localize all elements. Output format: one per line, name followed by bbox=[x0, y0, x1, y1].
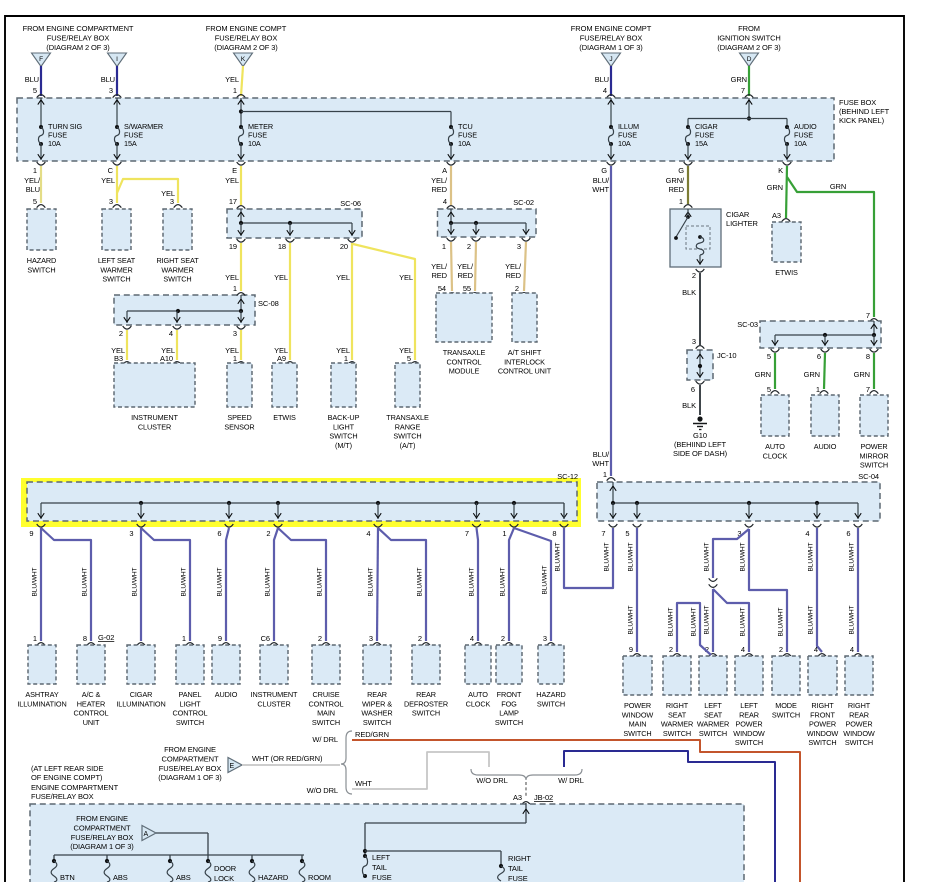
svg-text:SWITCH: SWITCH bbox=[860, 461, 888, 470]
svg-text:9: 9 bbox=[218, 634, 222, 643]
svg-text:BLU/WHT: BLU/WHT bbox=[417, 567, 424, 596]
wire YEL SC-06 pin 18 to ETWIS pin A9 bbox=[274, 243, 290, 360]
wire YEL fuse box pin E to SC-06 pin 17 bbox=[225, 166, 245, 209]
svg-text:1: 1 bbox=[233, 86, 237, 95]
connector SC-06 bbox=[227, 199, 362, 251]
svg-text:RIGHT SEAT: RIGHT SEAT bbox=[156, 256, 199, 265]
wire BLU/WHT SC-04 pin 6 to right rear power window switch bbox=[849, 528, 863, 657]
svg-text:4: 4 bbox=[805, 529, 809, 538]
svg-text:(DIAGRAM 2 OF 3): (DIAGRAM 2 OF 3) bbox=[717, 43, 781, 52]
auto clock (bottom) bbox=[465, 645, 491, 684]
svg-text:BLK: BLK bbox=[682, 401, 696, 410]
svg-text:YEL/: YEL/ bbox=[24, 176, 41, 185]
svg-text:BLU/WHT: BLU/WHT bbox=[317, 567, 324, 596]
hazard switch (bottom) bbox=[538, 645, 564, 684]
svg-text:7: 7 bbox=[866, 385, 870, 394]
svg-text:SWITCH: SWITCH bbox=[699, 729, 727, 738]
svg-text:E: E bbox=[230, 763, 235, 770]
svg-text:FUSE/RELAY BOX: FUSE/RELAY BOX bbox=[215, 34, 278, 43]
svg-text:8: 8 bbox=[552, 529, 556, 538]
svg-text:WINDOW: WINDOW bbox=[733, 729, 765, 738]
svg-text:(DIAGRAM 2 OF 3): (DIAGRAM 2 OF 3) bbox=[46, 43, 110, 52]
svg-text:CRUISE: CRUISE bbox=[313, 690, 340, 699]
svg-text:1: 1 bbox=[33, 634, 37, 643]
svg-text:SWITCH: SWITCH bbox=[495, 718, 523, 727]
svg-text:1: 1 bbox=[679, 197, 683, 206]
left seat warmer switch bbox=[102, 209, 131, 250]
svg-text:A3: A3 bbox=[772, 211, 781, 220]
component pin arcs row (instrument cluster etc.) bbox=[114, 354, 419, 365]
svg-text:BLU/WHT: BLU/WHT bbox=[628, 605, 635, 634]
svg-text:LOCK: LOCK bbox=[214, 874, 234, 882]
svg-text:ETWIS: ETWIS bbox=[775, 268, 798, 277]
svg-text:SWITCH: SWITCH bbox=[735, 738, 763, 747]
fuse LEFT TAIL bbox=[362, 853, 391, 882]
wire BLU/WHT SC-04 pin 4 to right front power window switch bbox=[808, 528, 827, 657]
svg-text:LAMP: LAMP bbox=[499, 709, 519, 718]
svg-text:LIGHT: LIGHT bbox=[333, 422, 355, 431]
svg-text:HAZARD: HAZARD bbox=[536, 690, 565, 699]
svg-text:(DIAGRAM 1 OF 3): (DIAGRAM 1 OF 3) bbox=[70, 842, 134, 851]
svg-text:BLU/WHT: BLU/WHT bbox=[469, 567, 476, 596]
svg-text:TRANSAXLE: TRANSAXLE bbox=[386, 413, 429, 422]
svg-text:DEFROSTER: DEFROSTER bbox=[404, 699, 448, 708]
svg-text:BLU/WHT: BLU/WHT bbox=[181, 567, 188, 596]
svg-text:1: 1 bbox=[816, 385, 820, 394]
svg-text:1: 1 bbox=[442, 242, 446, 251]
svg-text:2: 2 bbox=[266, 529, 270, 538]
svg-text:ABS: ABS bbox=[113, 873, 128, 882]
svg-text:POWER: POWER bbox=[735, 720, 762, 729]
svg-text:7: 7 bbox=[465, 529, 469, 538]
svg-text:SEAT: SEAT bbox=[668, 710, 687, 719]
svg-text:AUTO: AUTO bbox=[468, 690, 488, 699]
svg-text:GRN: GRN bbox=[731, 75, 747, 84]
svg-text:K: K bbox=[778, 166, 783, 175]
svg-text:PANEL: PANEL bbox=[179, 690, 202, 699]
svg-text:WHT (OR RED/GRN): WHT (OR RED/GRN) bbox=[252, 754, 323, 763]
svg-text:SWITCH: SWITCH bbox=[163, 275, 191, 284]
svg-text:JB-02: JB-02 bbox=[534, 793, 553, 802]
svg-text:3: 3 bbox=[692, 337, 696, 346]
svg-text:A: A bbox=[442, 166, 447, 175]
svg-text:TAIL: TAIL bbox=[372, 863, 387, 872]
svg-text:CIGAR: CIGAR bbox=[130, 690, 153, 699]
svg-text:BLU/WHT: BLU/WHT bbox=[265, 567, 272, 596]
connector triangle E bbox=[228, 758, 242, 773]
cigar lighter bbox=[670, 209, 758, 280]
svg-text:FROM ENGINE: FROM ENGINE bbox=[164, 745, 216, 754]
svg-text:10A: 10A bbox=[618, 139, 631, 148]
svg-text:D: D bbox=[747, 56, 752, 63]
svg-text:RIGHT: RIGHT bbox=[508, 854, 531, 863]
wire BLU/WHT fuse box pin G to SC-04 pin 1 bbox=[592, 166, 615, 481]
svg-text:FROM: FROM bbox=[738, 24, 760, 33]
ETWIS (A3) bbox=[772, 222, 801, 262]
svg-text:SWITCH: SWITCH bbox=[176, 718, 204, 727]
svg-text:6: 6 bbox=[817, 352, 821, 361]
underbrace to JB-02 A3 bbox=[471, 769, 584, 805]
right rear power window switch bbox=[845, 656, 873, 695]
wire YEL fuse box pin C to left seat warmer switch bbox=[101, 166, 121, 208]
svg-text:POWER: POWER bbox=[860, 442, 887, 451]
svg-text:5: 5 bbox=[33, 197, 37, 206]
wire YEL SC-08 pin 2 to instrument cluster B3 bbox=[111, 330, 127, 360]
jumper wire D to CIGAR and AUDIO fuses bbox=[688, 98, 787, 127]
svg-text:SWITCH: SWITCH bbox=[393, 432, 421, 441]
svg-text:B3: B3 bbox=[114, 354, 123, 363]
svg-text:BLU/WHT: BLU/WHT bbox=[132, 567, 139, 596]
svg-text:BLU/WHT: BLU/WHT bbox=[808, 542, 815, 571]
svg-text:A/C &: A/C & bbox=[82, 690, 101, 699]
svg-text:FUSE: FUSE bbox=[508, 874, 528, 882]
svg-text:3: 3 bbox=[129, 529, 133, 538]
svg-text:SWITCH: SWITCH bbox=[537, 699, 565, 708]
svg-text:GRN: GRN bbox=[854, 370, 870, 379]
svg-text:BLU: BLU bbox=[595, 75, 609, 84]
connector triangle F bbox=[32, 53, 51, 67]
ashtray illumination bbox=[28, 645, 56, 684]
svg-text:ASHTRAY: ASHTRAY bbox=[25, 690, 58, 699]
svg-text:SWITCH: SWITCH bbox=[27, 265, 55, 274]
svg-text:SPEED: SPEED bbox=[227, 413, 251, 422]
svg-text:SC-08: SC-08 bbox=[258, 299, 279, 308]
wire BLU/WHT SC-12 pin 4 to rear wiper and washer switch bbox=[368, 528, 382, 646]
svg-text:JC-10: JC-10 bbox=[717, 351, 737, 360]
svg-text:FROM ENGINE: FROM ENGINE bbox=[76, 814, 128, 823]
wire YEL SC-08 pin 3 to speed sensor bbox=[225, 330, 241, 360]
svg-text:(DIAGRAM 1 OF 3): (DIAGRAM 1 OF 3) bbox=[579, 43, 643, 52]
svg-text:3: 3 bbox=[170, 197, 174, 206]
cruise control main switch bbox=[312, 645, 340, 684]
wire GRN fuse box pin K to ETWIS A3 bbox=[767, 166, 791, 222]
wire BLU/WHT SC-12 pin 6 to audio bbox=[217, 528, 231, 646]
svg-text:4: 4 bbox=[850, 645, 854, 654]
svg-text:1: 1 bbox=[603, 470, 607, 479]
svg-text:POWER: POWER bbox=[809, 720, 836, 729]
fuse ABS 2 bbox=[167, 859, 191, 882]
svg-text:CONTROL: CONTROL bbox=[309, 699, 344, 708]
svg-text:SWITCH: SWITCH bbox=[102, 275, 130, 284]
svg-text:1: 1 bbox=[502, 529, 506, 538]
svg-text:5: 5 bbox=[33, 86, 37, 95]
wire BLU/WHT branch to cruise control main switch bbox=[278, 528, 330, 646]
connector SC-12 (highlighted yellow) bbox=[21, 472, 581, 538]
power window main switch bbox=[623, 656, 652, 695]
svg-text:(DIAGRAM 1 OF 3): (DIAGRAM 1 OF 3) bbox=[158, 773, 222, 782]
wire YEL from K to fuse box pin 1 bbox=[225, 66, 245, 98]
svg-text:(AT LEFT REAR SIDE: (AT LEFT REAR SIDE bbox=[31, 764, 103, 773]
svg-text:YEL: YEL bbox=[399, 273, 413, 282]
svg-text:DOOR: DOOR bbox=[214, 864, 237, 873]
rear defroster switch bbox=[412, 645, 440, 684]
a/c and heater control unit bbox=[77, 645, 105, 684]
svg-text:YEL/: YEL/ bbox=[457, 262, 474, 271]
wire BLU/WHT SC-12 pin 9 to ashtray illumination bbox=[32, 528, 46, 646]
wire YEL/RED SC-02 pin 3 to A/T shift interlock bbox=[505, 242, 526, 291]
wire YEL SC-08 pin 4 to instrument cluster A10 bbox=[161, 330, 177, 360]
fuse box bottom pin arcs and letters bbox=[33, 162, 791, 175]
wire BLU/WHT SC-12 pin 3 to cigar illumination bbox=[132, 528, 146, 646]
svg-text:4: 4 bbox=[470, 634, 474, 643]
connector triangle J bbox=[602, 53, 621, 67]
audio bbox=[212, 645, 240, 684]
fuse HAZARD bbox=[249, 859, 289, 882]
svg-text:BLU/WHT: BLU/WHT bbox=[32, 567, 39, 596]
svg-text:20: 20 bbox=[340, 242, 348, 251]
svg-text:SWITCH: SWITCH bbox=[808, 738, 836, 747]
svg-text:(A/T): (A/T) bbox=[400, 441, 416, 450]
svg-text:GRN: GRN bbox=[830, 182, 846, 191]
svg-text:W/ DRL: W/ DRL bbox=[312, 735, 338, 744]
svg-text:(BEHIND LEFT: (BEHIND LEFT bbox=[839, 107, 890, 116]
fuse DOOR LOCK bbox=[205, 859, 237, 882]
instrument cluster (bottom) bbox=[260, 645, 288, 684]
fuse bus in engine compartment box bbox=[54, 855, 304, 860]
svg-text:SENSOR: SENSOR bbox=[224, 422, 254, 431]
svg-text:9: 9 bbox=[629, 645, 633, 654]
svg-text:RIGHT: RIGHT bbox=[848, 701, 871, 710]
svg-text:1: 1 bbox=[233, 354, 237, 363]
svg-text:C: C bbox=[108, 166, 114, 175]
svg-text:BLU/WHT: BLU/WHT bbox=[668, 607, 675, 636]
svg-text:F: F bbox=[39, 56, 43, 63]
fuse RIGHT TAIL bbox=[498, 854, 532, 882]
wire YEL/RED SC-02 pin 1 to TCM 54 bbox=[431, 242, 452, 291]
svg-text:4: 4 bbox=[169, 329, 173, 338]
svg-text:BLU: BLU bbox=[26, 185, 40, 194]
svg-text:YEL: YEL bbox=[101, 176, 115, 185]
svg-text:J: J bbox=[609, 56, 612, 63]
wire YEL/BLU fuse box pin 1 to hazard switch bbox=[24, 166, 45, 208]
wire from A to fuse bus bbox=[156, 833, 208, 855]
svg-text:BTN: BTN bbox=[60, 873, 75, 882]
svg-text:WARMER: WARMER bbox=[661, 720, 693, 729]
svg-text:COMPARTMENT: COMPARTMENT bbox=[162, 754, 219, 763]
svg-text:2: 2 bbox=[119, 329, 123, 338]
wire GRN SC-03 pin 5 to auto clock bbox=[755, 353, 775, 389]
svg-text:HAZARD: HAZARD bbox=[258, 873, 289, 882]
svg-text:AUDIO: AUDIO bbox=[814, 442, 837, 451]
svg-text:E: E bbox=[232, 166, 237, 175]
svg-text:HAZARD: HAZARD bbox=[27, 256, 56, 265]
connector SC-03 bbox=[737, 320, 881, 361]
svg-text:RED: RED bbox=[457, 271, 473, 280]
svg-text:YEL/: YEL/ bbox=[431, 262, 448, 271]
fuse ROOM bbox=[299, 859, 331, 882]
svg-text:UNIT: UNIT bbox=[83, 718, 100, 727]
left rear power window switch bbox=[735, 656, 763, 695]
svg-text:ETWIS: ETWIS bbox=[273, 413, 296, 422]
svg-text:IGNITION SWITCH: IGNITION SWITCH bbox=[717, 34, 781, 43]
svg-text:2: 2 bbox=[418, 634, 422, 643]
svg-text:RANGE: RANGE bbox=[395, 422, 421, 431]
svg-text:BLU/WHT: BLU/WHT bbox=[740, 607, 747, 636]
right seat warmer switch bbox=[163, 209, 192, 250]
svg-text:MODE: MODE bbox=[775, 701, 797, 710]
svg-text:A9: A9 bbox=[277, 354, 286, 363]
front fog lamp switch bbox=[496, 645, 522, 684]
svg-text:17: 17 bbox=[229, 197, 237, 206]
svg-text:YEL: YEL bbox=[274, 273, 288, 282]
svg-text:2: 2 bbox=[467, 242, 471, 251]
transaxle control module bbox=[436, 293, 492, 342]
svg-text:5: 5 bbox=[767, 352, 771, 361]
connector SC-02 bbox=[438, 198, 537, 251]
svg-text:WARMER: WARMER bbox=[697, 720, 729, 729]
ground G10 (behind left side of dash) bbox=[673, 416, 728, 458]
svg-text:5: 5 bbox=[625, 529, 629, 538]
svg-text:GRN/: GRN/ bbox=[666, 176, 685, 185]
svg-text:BLU/WHT: BLU/WHT bbox=[368, 567, 375, 596]
svg-text:RED: RED bbox=[668, 185, 684, 194]
wire YEL SC-06 pin 20 to back-up light switch bbox=[336, 243, 352, 360]
mode switch bbox=[772, 656, 800, 695]
svg-text:FRONT: FRONT bbox=[810, 710, 835, 719]
svg-text:7: 7 bbox=[866, 311, 870, 320]
wire BLU/WHT bridge right seat warmer switch bbox=[668, 603, 712, 657]
svg-text:4: 4 bbox=[741, 645, 745, 654]
svg-text:W/O DRL: W/O DRL bbox=[307, 786, 338, 795]
svg-text:RED/GRN: RED/GRN bbox=[355, 730, 389, 739]
wire BLU/WHT SC-12 pin 1 to front fog lamp switch bbox=[500, 528, 515, 646]
wire BLU from J to fuse box pin 4 bbox=[595, 66, 616, 98]
svg-text:WHT: WHT bbox=[592, 459, 609, 468]
svg-text:3: 3 bbox=[543, 634, 547, 643]
TCM pin arcs 54 55 bbox=[438, 284, 528, 296]
svg-text:BLU/WHT: BLU/WHT bbox=[217, 567, 224, 596]
connector triangle K bbox=[234, 53, 253, 67]
svg-text:CIGAR: CIGAR bbox=[726, 210, 750, 219]
connector triangle D bbox=[740, 53, 759, 67]
svg-text:WINDOW: WINDOW bbox=[807, 729, 839, 738]
fuse ILLUM 10A bbox=[608, 98, 639, 160]
svg-text:SWITCH: SWITCH bbox=[772, 710, 800, 719]
audio (right) bbox=[811, 395, 839, 436]
svg-text:SIDE OF DASH): SIDE OF DASH) bbox=[673, 449, 728, 458]
svg-text:POWER: POWER bbox=[624, 701, 651, 710]
svg-text:SWITCH: SWITCH bbox=[412, 709, 440, 718]
engine compartment fuse/relay box (bottom) bbox=[30, 804, 744, 882]
connector SC-04 bbox=[597, 472, 880, 538]
svg-text:SC-12: SC-12 bbox=[557, 472, 578, 481]
svg-text:1: 1 bbox=[233, 284, 237, 293]
svg-text:G-02: G-02 bbox=[98, 633, 114, 642]
text at left rear side of engine compt engine compartment fuse/relay box bbox=[31, 764, 119, 801]
svg-text:4: 4 bbox=[603, 86, 607, 95]
fuse TCU 10A bbox=[448, 122, 477, 160]
svg-text:6: 6 bbox=[217, 529, 221, 538]
svg-text:FUSE BOX: FUSE BOX bbox=[839, 98, 876, 107]
svg-text:ILLUMINATION: ILLUMINATION bbox=[17, 699, 66, 708]
svg-text:(BEHIIND LEFT: (BEHIIND LEFT bbox=[674, 440, 727, 449]
svg-text:ILLUMINATION: ILLUMINATION bbox=[116, 699, 165, 708]
svg-text:SC-02: SC-02 bbox=[513, 198, 534, 207]
svg-text:RED: RED bbox=[431, 185, 447, 194]
auto clock (right) bbox=[761, 395, 789, 436]
svg-text:7: 7 bbox=[741, 86, 745, 95]
svg-text:GRN: GRN bbox=[755, 370, 771, 379]
fuse TURN SIG 10A bbox=[38, 98, 83, 160]
svg-text:OF ENGINE COMPT): OF ENGINE COMPT) bbox=[31, 773, 103, 782]
svg-text:54: 54 bbox=[438, 284, 446, 293]
svg-text:7: 7 bbox=[601, 529, 605, 538]
svg-text:8: 8 bbox=[83, 634, 87, 643]
svg-text:1: 1 bbox=[182, 634, 186, 643]
svg-text:POWER: POWER bbox=[845, 720, 872, 729]
wire BLU/WHT SC-04 pin 3 to inline connector and left seat warmer switch bbox=[704, 529, 750, 657]
svg-text:FROM ENGINE COMPT: FROM ENGINE COMPT bbox=[206, 24, 287, 33]
wire BLU/WHT SC-04 pin 3 branch to mode switch bbox=[740, 529, 792, 657]
svg-text:YEL: YEL bbox=[225, 176, 239, 185]
pin arcs auto clock / audio / power mirror switch bbox=[767, 385, 878, 394]
svg-text:2: 2 bbox=[318, 634, 322, 643]
svg-text:RED: RED bbox=[505, 271, 521, 280]
svg-text:AUDIO: AUDIO bbox=[215, 690, 238, 699]
jumper wire METER to TCU bbox=[239, 109, 451, 127]
svg-text:LEFT: LEFT bbox=[372, 853, 390, 862]
wire YEL/RED SC-02 pin 2 to TCM 55 bbox=[457, 242, 476, 291]
right seat warmer switch (bottom) bbox=[663, 656, 691, 695]
svg-text:2: 2 bbox=[692, 271, 696, 280]
svg-text:A: A bbox=[144, 831, 149, 838]
svg-text:55: 55 bbox=[463, 284, 471, 293]
svg-text:CONTROL: CONTROL bbox=[447, 357, 482, 366]
svg-text:LEFT: LEFT bbox=[704, 701, 722, 710]
svg-text:5: 5 bbox=[407, 354, 411, 363]
wire WHT (w/o DRL) to JB-02 brace bbox=[352, 752, 489, 789]
svg-text:SC-06: SC-06 bbox=[340, 199, 361, 208]
wire BLU/WHT inline connector to left rear power window switch bbox=[713, 589, 753, 657]
svg-text:TRANSAXLE: TRANSAXLE bbox=[443, 348, 486, 357]
wire BLK cigar lighter to JC-10 pin 3 bbox=[682, 273, 704, 349]
wire GRN SC-03 pin 6 to audio bbox=[804, 353, 825, 389]
wire BLU/WHT SC-04 pin 5 to power window main switch bbox=[628, 528, 642, 657]
speed sensor bbox=[227, 363, 252, 407]
svg-text:MODULE: MODULE bbox=[449, 367, 480, 376]
wire BLU from F to fuse box pin 5 bbox=[25, 66, 46, 98]
fuse AUDIO 10A bbox=[784, 122, 817, 160]
wire BLU/WHT SC-12 pin 8 to SC-04 pin 7 bbox=[555, 528, 614, 588]
svg-text:SWITCH: SWITCH bbox=[623, 729, 651, 738]
svg-text:MAIN: MAIN bbox=[629, 720, 647, 729]
A/T shift interlock control unit bbox=[512, 293, 537, 342]
svg-text:A/T SHIFT: A/T SHIFT bbox=[508, 348, 542, 357]
svg-text:18: 18 bbox=[278, 242, 286, 251]
svg-text:BACK-UP: BACK-UP bbox=[328, 413, 360, 422]
svg-text:MAIN: MAIN bbox=[317, 709, 335, 718]
svg-text:LIGHTER: LIGHTER bbox=[726, 219, 758, 228]
svg-text:5: 5 bbox=[767, 385, 771, 394]
svg-text:BLU/WHT: BLU/WHT bbox=[704, 605, 711, 634]
svg-text:COMPARTMENT: COMPARTMENT bbox=[74, 823, 131, 832]
svg-text:8: 8 bbox=[866, 352, 870, 361]
svg-text:W/O DRL: W/O DRL bbox=[476, 776, 507, 785]
fuse S/WARMER 15A bbox=[114, 98, 163, 160]
svg-text:WINDOW: WINDOW bbox=[843, 729, 875, 738]
svg-text:BLU/: BLU/ bbox=[593, 450, 610, 459]
wire BLU/WHT branch to panel light control switch bbox=[141, 528, 194, 646]
svg-text:BLU: BLU bbox=[25, 75, 39, 84]
panel light control switch bbox=[176, 645, 204, 684]
svg-text:LEFT: LEFT bbox=[740, 701, 758, 710]
ETWIS (A9) bbox=[272, 363, 297, 407]
hazard switch bbox=[27, 209, 56, 250]
svg-text:FUSE: FUSE bbox=[372, 873, 392, 882]
svg-text:REAR: REAR bbox=[739, 710, 759, 719]
instrument cluster bbox=[114, 363, 195, 407]
wire GRN from D to fuse box pin 7 bbox=[731, 66, 754, 98]
